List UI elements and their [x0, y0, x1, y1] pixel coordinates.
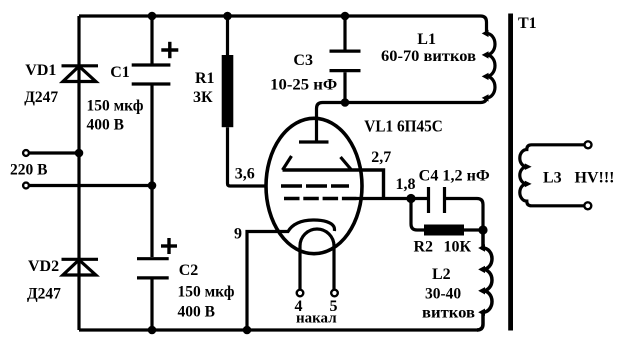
svg-text:150 мкф: 150 мкф	[87, 98, 144, 115]
svg-text:1,8: 1,8	[396, 176, 416, 193]
svg-text:L3: L3	[543, 169, 562, 186]
svg-text:2,7: 2,7	[371, 149, 391, 166]
svg-text:С1: С1	[110, 64, 130, 81]
svg-text:VD2: VD2	[28, 258, 59, 275]
svg-text:R2: R2	[414, 239, 434, 256]
svg-text:10К: 10К	[444, 239, 472, 256]
svg-text:400 В: 400 В	[87, 117, 124, 134]
svg-text:Т1: Т1	[518, 15, 537, 32]
svg-text:150 мкф: 150 мкф	[178, 284, 235, 301]
svg-text:накал: накал	[296, 311, 337, 327]
svg-text:L2: L2	[432, 266, 451, 283]
svg-text:витков: витков	[422, 305, 475, 322]
svg-text:220 В: 220 В	[10, 162, 47, 179]
svg-text:VL1 6П45С: VL1 6П45С	[364, 116, 443, 135]
svg-text:3,6: 3,6	[235, 166, 255, 183]
svg-text:VD1: VD1	[25, 62, 56, 79]
svg-text:HV!!!: HV!!!	[575, 169, 615, 186]
svg-text:400 В: 400 В	[178, 304, 215, 321]
svg-text:60-70 витков: 60-70 витков	[381, 48, 476, 65]
svg-text:3К: 3К	[193, 89, 213, 106]
svg-text:С2: С2	[179, 262, 199, 279]
svg-text:9: 9	[234, 225, 242, 242]
svg-text:R1: R1	[195, 70, 215, 87]
svg-text:L1: L1	[417, 31, 436, 48]
svg-text:С4 1,2 нФ: С4 1,2 нФ	[419, 168, 490, 185]
svg-text:30-40: 30-40	[425, 286, 461, 303]
svg-text:Д247: Д247	[27, 286, 61, 303]
svg-text:10-25 нФ: 10-25 нФ	[270, 77, 337, 94]
svg-text:Д247: Д247	[24, 89, 58, 106]
svg-text:С3: С3	[293, 52, 313, 69]
